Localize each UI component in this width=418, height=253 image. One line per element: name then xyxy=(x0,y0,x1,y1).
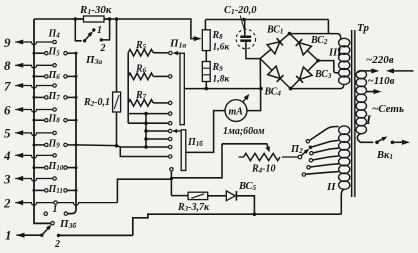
svg-text:~110в: ~110в xyxy=(368,75,395,87)
svg-text:4: 4 xyxy=(3,148,11,163)
svg-text:2: 2 xyxy=(54,239,60,250)
svg-text:mA: mA xyxy=(229,107,244,118)
wire mains prong top xyxy=(391,70,413,72)
svg-text:8: 8 xyxy=(4,58,11,73)
svg-text:Тр: Тр xyxy=(357,22,369,34)
resistor R6 xyxy=(128,73,153,80)
tap 4 of winding II xyxy=(309,159,312,162)
wire winding I top tap xyxy=(358,71,374,73)
switch P2 pole xyxy=(282,156,298,158)
wire meter right xyxy=(247,89,261,111)
wire feeder vertical xyxy=(145,114,147,147)
svg-text:I: I xyxy=(365,112,372,127)
svg-text:9: 9 xyxy=(4,35,11,50)
wire bridge right to winding III xyxy=(318,61,339,73)
node bridge right xyxy=(316,59,320,63)
node top-rail/R1 left xyxy=(74,17,78,21)
winding III xyxy=(339,38,350,47)
wire P1b wiper to meter xyxy=(186,111,225,153)
wire tap row w6 xyxy=(120,147,168,157)
contact R6 xyxy=(169,75,172,78)
switch P10 row xyxy=(32,166,35,169)
wiper arrow P1b xyxy=(175,130,181,132)
svg-text:R2-0,1: R2-0,1 xyxy=(83,97,110,108)
switch P6 row xyxy=(32,75,35,78)
node bottom/VC5 xyxy=(253,212,257,216)
svg-text:2: 2 xyxy=(100,43,106,54)
contact 2 of P3b xyxy=(57,234,60,237)
svg-text:III: III xyxy=(328,48,342,59)
switch P7 row xyxy=(32,96,35,99)
svg-text:5: 5 xyxy=(4,126,11,141)
svg-text:1: 1 xyxy=(97,25,102,36)
wire C1 bottom xyxy=(246,42,260,59)
wire R8-R9 xyxy=(205,51,207,62)
switch P9 row xyxy=(32,143,35,146)
svg-text:II: II xyxy=(326,181,336,193)
contact R5 xyxy=(169,51,172,54)
wire R4 tap xyxy=(222,144,268,149)
winding I xyxy=(356,70,366,78)
wire bus to w5 xyxy=(76,144,117,147)
switch P3a xyxy=(83,39,86,42)
contact P1b output xyxy=(170,168,173,171)
svg-text:7: 7 xyxy=(4,78,11,93)
resistor R8 xyxy=(202,30,210,51)
wire tap row w5 xyxy=(117,146,169,147)
switch P11 row xyxy=(32,189,35,192)
tap 5 of winding II xyxy=(307,166,310,169)
bus left vertical xyxy=(34,19,51,223)
slider P1b xyxy=(181,130,186,171)
svg-text:R3-3,7к: R3-3,7к xyxy=(177,202,210,213)
wire VC5 out xyxy=(236,196,254,214)
switch P3b arm xyxy=(40,234,43,237)
svg-text:Вк1: Вк1 xyxy=(376,150,393,161)
svg-text:R4-10: R4-10 xyxy=(251,164,276,175)
svg-text:2: 2 xyxy=(3,195,11,210)
contact 2 of P3a xyxy=(100,38,103,41)
resistor R2 xyxy=(113,92,121,112)
wire winding I 110V tap xyxy=(366,91,376,93)
svg-text:R1-30к: R1-30к xyxy=(79,4,112,16)
wire bottom from P3b xyxy=(59,234,133,236)
svg-text:C1-20,0: C1-20,0 xyxy=(224,5,257,16)
svg-text:6: 6 xyxy=(4,102,11,117)
svg-text:1ма;60ом: 1ма;60ом xyxy=(223,126,265,137)
wire bottom staircase xyxy=(133,214,341,235)
node top-rail/R2 feeder xyxy=(115,17,119,21)
wire winding II bottom xyxy=(341,189,344,214)
resistor R3 xyxy=(188,192,208,199)
wire mid rail xyxy=(184,88,261,90)
switch P2 arm xyxy=(301,150,307,155)
svg-text:~220в: ~220в xyxy=(366,54,394,66)
wire tap row w1 xyxy=(128,113,168,115)
wire row2 to step xyxy=(57,203,117,206)
diode VC5 xyxy=(226,191,235,201)
svg-text:1,8к: 1,8к xyxy=(213,75,231,85)
node bridge bottom xyxy=(289,87,293,91)
node joint xyxy=(170,177,173,180)
resistor R7 xyxy=(128,100,153,107)
diode VC4 xyxy=(268,66,280,78)
resistor R9 xyxy=(202,62,210,82)
wire R9 bottom xyxy=(205,82,207,89)
switch P3b pole xyxy=(51,222,54,225)
wire switch P3a drop left xyxy=(75,19,81,41)
wire return from R4 tap xyxy=(171,144,222,178)
tap 6 of winding II xyxy=(302,173,305,176)
bridge frame xyxy=(260,34,318,89)
svg-text:3: 3 xyxy=(3,171,11,186)
node R9/mid rail xyxy=(205,87,209,91)
node mid rail/C1 xyxy=(259,87,263,91)
switch P5 row xyxy=(32,52,35,55)
wire P1b output down xyxy=(170,171,172,196)
wire tap row w2 xyxy=(128,122,168,124)
node top-rail/R1 right xyxy=(108,17,112,21)
wire top rail left section xyxy=(34,19,197,39)
wire winding I bottom xyxy=(357,134,373,143)
label leader line xyxy=(240,16,245,34)
resistor R1 xyxy=(75,18,83,20)
wire bridge bottom to winding III bottom xyxy=(291,84,344,88)
svg-text:ВС5: ВС5 xyxy=(238,181,257,192)
wire tap row w3 xyxy=(144,129,148,133)
meter polarity arrow xyxy=(243,96,248,102)
svg-text:1: 1 xyxy=(53,204,58,215)
svg-text:П2: П2 xyxy=(290,144,303,155)
node top rail/C1 xyxy=(242,18,246,22)
wire top rail right section xyxy=(205,19,328,21)
wire R2 bottom xyxy=(116,112,118,146)
meter mA xyxy=(225,100,247,122)
node bridge top xyxy=(288,32,292,36)
resistor R4 xyxy=(239,156,244,158)
diode VC3 xyxy=(300,67,312,79)
capacitor C1 xyxy=(240,36,251,39)
wire rail to winding III top xyxy=(327,20,329,34)
wire step from row2 xyxy=(117,179,171,202)
switch P3b upper contacts xyxy=(44,212,47,215)
resistor R5 xyxy=(128,49,153,56)
diode VC2 xyxy=(299,43,311,55)
tap 1 of winding II xyxy=(306,140,309,143)
svg-text:1: 1 xyxy=(5,228,12,243)
wire R2 feeder xyxy=(116,19,118,92)
contact R7 xyxy=(169,101,172,104)
capacitor C1 lead xyxy=(244,20,246,36)
svg-text:~Сеть: ~Сеть xyxy=(372,103,404,115)
wire R-chain left vertical xyxy=(127,53,129,124)
core xyxy=(352,30,355,197)
wire R3 to VC5 xyxy=(208,195,227,197)
tap 2 of winding II xyxy=(309,146,313,150)
switch P8 row xyxy=(32,119,35,122)
slider P1a xyxy=(180,53,184,125)
svg-text:1,6к: 1,6к xyxy=(213,43,231,53)
wire tap row w4 xyxy=(144,137,148,141)
diode VC1 xyxy=(267,42,280,54)
winding II xyxy=(339,126,350,135)
tap 3 of winding II xyxy=(310,152,313,155)
wire R3 branch xyxy=(171,195,188,197)
bus right vertical xyxy=(68,53,77,213)
switch Vk1 xyxy=(375,141,379,145)
